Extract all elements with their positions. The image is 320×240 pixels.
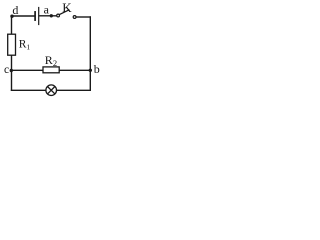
battery cell: short thick plate (34, 12, 36, 20)
wire battery to switch (39, 15, 56, 17)
wire left side lower (R1 to bottom corner) (11, 55, 13, 90)
node a (50, 14, 53, 17)
wire left side upper (d to R1) (11, 16, 13, 34)
svg-text:R1: R1 (19, 39, 31, 52)
wire bottom left segment (12, 89, 46, 91)
resistor R1 (8, 34, 16, 55)
node c (10, 69, 13, 72)
svg-text:d: d (12, 3, 18, 17)
wire middle c to R2 (12, 69, 44, 71)
battery cell: long thin plate (38, 8, 40, 25)
switch K (57, 10, 76, 19)
wire top-left d to battery (12, 15, 34, 17)
svg-text:R2: R2 (45, 53, 57, 68)
node d (10, 15, 13, 18)
svg-text:a: a (44, 3, 50, 17)
wire right side down (89, 17, 91, 90)
svg-text:K: K (62, 0, 72, 15)
node b (89, 69, 92, 72)
svg-text:b: b (94, 62, 100, 76)
wire middle R2 to b (59, 69, 90, 71)
wire bottom right segment (57, 89, 91, 91)
lamp L (46, 85, 57, 96)
wire switch right terminal to top-right corner (76, 16, 91, 18)
resistor R2 (43, 67, 59, 73)
svg-text:c: c (4, 64, 9, 76)
